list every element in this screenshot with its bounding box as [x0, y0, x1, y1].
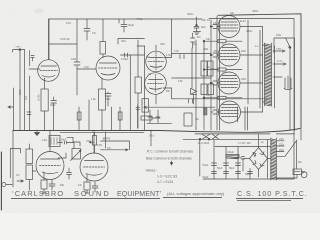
svg-text:50µF: 50µF — [203, 175, 209, 179]
svg-text:0.05µF: 0.05µF — [59, 139, 67, 142]
svg-text:465v: 465v — [241, 78, 247, 81]
svg-text:270v: 270v — [66, 22, 72, 25]
svg-text:50µF: 50µF — [245, 173, 251, 176]
svg-text:47kΩ: 47kΩ — [136, 17, 142, 21]
svg-text:140v: 140v — [42, 139, 48, 142]
svg-text:15Ω: 15Ω — [276, 33, 281, 37]
svg-text:1-3 = ECC 83: 1-3 = ECC 83 — [157, 175, 177, 179]
svg-text:VHF c: VHF c — [16, 47, 23, 49]
svg-text:470k: 470k — [97, 144, 103, 147]
svg-text:170v: 170v — [166, 54, 172, 57]
svg-text:Bias Common to both channels: Bias Common to both channels — [146, 157, 192, 161]
svg-text:220v: 220v — [279, 144, 285, 147]
svg-text:150v: 150v — [86, 140, 92, 143]
svg-text:100k: 100k — [203, 48, 209, 51]
svg-text:a.c.: a.c. — [255, 45, 259, 48]
svg-text:0.02: 0.02 — [84, 66, 89, 69]
svg-text:200v: 200v — [279, 149, 285, 152]
svg-text:2A: 2A — [302, 170, 305, 174]
svg-text:SOUND: SOUND — [74, 189, 111, 198]
svg-text:22k 1w: 22k 1w — [202, 18, 211, 22]
svg-text:16 0-4334: 16 0-4334 — [198, 141, 210, 145]
svg-text:820: 820 — [60, 184, 65, 187]
svg-text:25µF: 25µF — [105, 98, 111, 101]
svg-text:680k: 680k — [18, 89, 22, 95]
svg-text:100µF: 100µF — [227, 151, 234, 154]
svg-text:240v: 240v — [279, 138, 285, 141]
svg-text:50µF: 50µF — [203, 163, 209, 167]
svg-text:50µF: 50µF — [229, 167, 235, 170]
svg-text:25µF: 25µF — [50, 104, 56, 107]
svg-text:30µF: 30µF — [128, 23, 135, 27]
svg-text:R.C. Common to both channels: R.C. Common to both channels — [147, 150, 193, 154]
svg-text:EL34: EL34 — [240, 20, 246, 23]
svg-text:1k Wv: 1k Wv — [38, 94, 41, 101]
svg-text:C.S. 100 P.S.T.C.: C.S. 100 P.S.T.C. — [237, 189, 308, 198]
svg-text:8µF: 8µF — [201, 25, 206, 29]
svg-text:1.5k: 1.5k — [91, 98, 96, 101]
svg-text:-35v: -35v — [213, 50, 218, 53]
svg-text:0.25: 0.25 — [174, 50, 179, 53]
svg-text:‘CARLSBRO: ‘CARLSBRO — [12, 189, 64, 198]
svg-text:340v: 340v — [187, 12, 194, 16]
svg-text:465v: 465v — [241, 50, 247, 53]
svg-text:50µF: 50µF — [217, 167, 223, 170]
svg-text:1M: 1M — [103, 138, 106, 141]
svg-text:(ALL voltages approximate only: (ALL voltages approximate only) — [167, 191, 225, 196]
svg-text:Valves:-: Valves:- — [146, 169, 158, 173]
svg-text:6.8k: 6.8k — [178, 80, 183, 83]
svg-text:4.7k: 4.7k — [277, 59, 283, 63]
svg-text:EQUIPMENT’: EQUIPMENT’ — [117, 191, 162, 198]
svg-text:4 x BY 100: 4 x BY 100 — [238, 141, 251, 145]
svg-text:5A: 5A — [298, 160, 302, 164]
svg-text:1000: 1000 — [210, 68, 216, 71]
svg-text:0.8 c: 0.8 c — [149, 134, 155, 138]
svg-text:1M: 1M — [16, 174, 19, 177]
svg-text:1M: 1M — [146, 56, 149, 59]
svg-text:7.5Ω: 7.5Ω — [276, 48, 281, 51]
svg-text:100k: 100k — [71, 58, 77, 61]
svg-text:490v: 490v — [252, 9, 259, 13]
svg-text:445v: 445v — [246, 29, 253, 33]
svg-text:360v: 360v — [160, 43, 166, 46]
svg-text:260v: 260v — [121, 40, 127, 43]
svg-text:-35v: -35v — [196, 36, 201, 39]
svg-text:0.02µF: 0.02µF — [121, 58, 129, 61]
svg-text:0.047µF: 0.047µF — [60, 37, 70, 41]
svg-text:4-7 = EL34: 4-7 = EL34 — [157, 180, 173, 184]
